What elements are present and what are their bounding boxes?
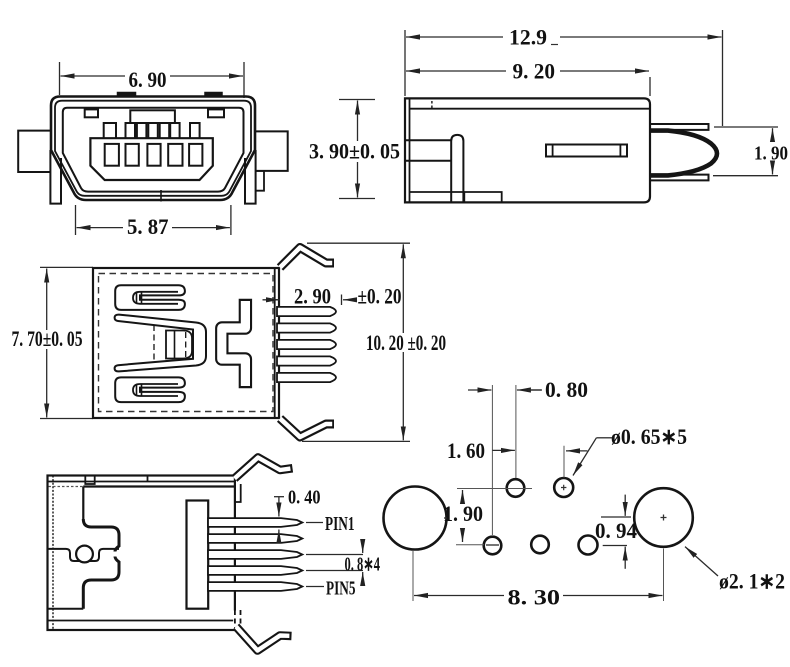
body rect xyxy=(93,268,279,418)
dia 0.65 arrow xyxy=(566,450,587,452)
small hole lower-right xyxy=(579,536,598,555)
vertical bar with round top xyxy=(451,135,463,203)
spring hook xyxy=(650,131,717,176)
side block right xyxy=(255,131,288,171)
interior step contour lower xyxy=(83,557,119,609)
svg-text:PIN1: PIN1 xyxy=(325,513,355,535)
top tab xyxy=(650,124,709,130)
pin 1 xyxy=(208,518,302,527)
small hole upper-left xyxy=(507,479,525,497)
pin 4 xyxy=(208,566,302,575)
pin block bar xyxy=(187,501,209,609)
dim +-0.20 tick xyxy=(341,295,343,306)
dim 3.90 line xyxy=(357,101,359,142)
pin 5 xyxy=(277,373,336,382)
svg-text:3. 90±0. 05: 3. 90±0. 05 xyxy=(309,139,400,164)
bottom center tick xyxy=(160,190,162,202)
pin 2 xyxy=(208,534,302,543)
dim 9.20 line xyxy=(406,70,506,72)
svg-text:0. 80: 0. 80 xyxy=(545,377,588,402)
svg-text:12.9: 12.9 xyxy=(509,25,547,50)
left edge inner line xyxy=(52,476,54,631)
svg-text:10. 20 ±0. 20: 10. 20 ±0. 20 xyxy=(366,330,446,355)
top edge second line xyxy=(48,481,235,483)
svg-text:7. 70±0. 05: 7. 70±0. 05 xyxy=(12,326,83,351)
hidden top-left dashes xyxy=(49,486,84,488)
TOPVIEW xyxy=(12,243,447,441)
contact clothespin middle xyxy=(115,315,206,372)
interior bottom horizontal xyxy=(48,608,84,610)
contact Z-ribbon right xyxy=(222,299,246,388)
top right step xyxy=(235,484,241,502)
ext line small left col xyxy=(491,385,493,535)
pin 3 xyxy=(208,550,302,559)
contact fork top xyxy=(115,285,185,310)
dim 12.9 ext right xyxy=(722,30,724,126)
opening D contour xyxy=(63,108,244,192)
latch hole right xyxy=(208,109,224,117)
BOTTOMVIEW xyxy=(48,458,381,651)
bottom hook leg xyxy=(280,419,334,438)
tongue slot 5 xyxy=(189,144,202,166)
left horizontals xyxy=(405,139,452,141)
dim +-0.20 arrow xyxy=(343,299,356,301)
dim 0.40 leader xyxy=(274,496,284,498)
dia 2.1 leader xyxy=(685,547,718,576)
dim 2.90 arrow xyxy=(263,299,281,301)
dashed hidden rect xyxy=(99,274,274,412)
tongue trapezoid xyxy=(90,138,212,180)
bottom hook leg xyxy=(236,627,292,651)
dim 6.90 extension line left xyxy=(59,62,61,95)
dim 12.9 ext left xyxy=(404,30,406,96)
dim 10.20 ext top xyxy=(307,242,410,244)
svg-text:0. 94: 0. 94 xyxy=(595,518,637,543)
body inner left line xyxy=(409,98,411,202)
dim 6.90 line xyxy=(61,75,126,77)
tongue slot 1 xyxy=(105,144,119,166)
dim 0.8*4 arrows xyxy=(362,539,364,553)
small hole lower-mid xyxy=(531,536,549,554)
svg-text:±0. 20: ±0. 20 xyxy=(358,284,402,309)
svg-text:6. 90: 6. 90 xyxy=(129,67,167,92)
foot tab left xyxy=(50,150,61,204)
hidden edge dashes bottom-right xyxy=(233,611,237,630)
pin 4 xyxy=(277,356,336,365)
svg-text:1. 60: 1. 60 xyxy=(447,438,485,463)
top small notch xyxy=(85,476,94,485)
foot tab right xyxy=(245,150,256,204)
teeth row xyxy=(104,123,116,138)
big hole right xyxy=(634,488,693,547)
pin 2 xyxy=(277,323,336,332)
shell outer contour xyxy=(51,97,255,201)
ext line small right col xyxy=(515,385,517,478)
dim 10.20 line xyxy=(402,244,404,333)
svg-text:0. 40: 0. 40 xyxy=(288,487,321,509)
tongue slot 4 xyxy=(168,144,182,166)
bottom second line xyxy=(410,191,465,193)
bottom tab xyxy=(650,175,709,181)
dim 7.70 line xyxy=(46,269,48,331)
top latch bump right xyxy=(205,93,222,97)
lower row line xyxy=(456,544,484,546)
tongue slot 2 xyxy=(126,144,139,166)
svg-text:2. 90: 2. 90 xyxy=(294,284,331,309)
middle slot xyxy=(546,145,627,157)
tongue slot 3 xyxy=(147,144,160,166)
dim 5.87 line xyxy=(77,227,124,229)
svg-text:1. 90: 1. 90 xyxy=(443,501,483,526)
SIDEVIEW xyxy=(405,25,788,203)
PCBVIEW xyxy=(384,377,786,610)
contact fork bottom xyxy=(115,377,185,402)
svg-text:ø2. 1∗2: ø2. 1∗2 xyxy=(719,569,785,594)
svg-text:8. 30: 8. 30 xyxy=(508,585,561,610)
pin 5 xyxy=(208,582,302,591)
dim 3.90 ext ticks xyxy=(339,99,375,101)
dim 1.60 arrow xyxy=(492,449,515,451)
dim 0.94 arrows xyxy=(624,495,626,516)
bottom step block xyxy=(464,192,501,202)
pin3 ext line xyxy=(306,554,363,556)
dim 5.87 ext right xyxy=(230,205,232,235)
dim 8.30 line xyxy=(414,595,504,597)
dim 7.70 ext ticks xyxy=(40,266,93,268)
interior circle xyxy=(76,546,93,563)
dim 6.90 extension line right xyxy=(243,62,245,98)
bottom edge second line xyxy=(48,620,235,622)
small hole lower-left xyxy=(484,537,502,555)
FRONTVIEW xyxy=(18,62,400,239)
interior left vertical top xyxy=(82,487,84,522)
svg-text:1. 90: 1. 90 xyxy=(754,143,788,165)
interior top horizontal xyxy=(83,485,235,487)
pin 3 xyxy=(277,340,336,349)
body outline xyxy=(48,476,235,631)
dim 12.9 line xyxy=(406,36,503,38)
PIN5 leader xyxy=(306,586,324,588)
top hook leg xyxy=(235,458,293,479)
dim 5.87 ext left xyxy=(75,205,77,235)
dim 1.90 arrows xyxy=(772,128,774,141)
upper row center line xyxy=(457,488,532,490)
dim 1.90 ext lines xyxy=(714,126,778,128)
body outline xyxy=(405,98,650,202)
dia 0.65 leader xyxy=(596,437,612,439)
svg-text:PIN5: PIN5 xyxy=(326,578,356,600)
side block left xyxy=(18,131,51,172)
shell wall inner contour xyxy=(55,101,251,196)
center top housing rect xyxy=(130,110,175,123)
pin4 ext line xyxy=(306,570,363,572)
svg-text:5. 87: 5. 87 xyxy=(127,214,169,239)
top edge tick xyxy=(147,476,149,482)
PIN1 leader xyxy=(306,522,323,524)
dim 9.20 ext right xyxy=(649,77,651,96)
side block right lower tab xyxy=(255,171,264,191)
dim 8.30 ext left xyxy=(412,551,414,601)
dim 1.90 arrows xyxy=(462,490,464,501)
small hole upper-right xyxy=(554,478,573,497)
pin 1 xyxy=(277,307,336,316)
dim 10.20 ext bottom xyxy=(302,440,410,442)
dim 8.30 ext right xyxy=(663,549,665,602)
dim 0.80 arrows xyxy=(468,389,491,391)
svg-text:ø0. 65∗5: ø0. 65∗5 xyxy=(611,424,687,449)
top hook leg xyxy=(280,248,334,268)
big hole left xyxy=(384,487,447,550)
interior step contour upper xyxy=(83,519,119,552)
interior mid line with dip xyxy=(48,549,120,561)
top-left tick mark xyxy=(431,101,433,109)
svg-text:9. 20: 9. 20 xyxy=(513,59,556,84)
body inner top line xyxy=(410,108,651,110)
body right edge inner xyxy=(274,268,276,418)
dia 0.65 ext line xyxy=(563,446,565,478)
svg-text:0. 8∗4: 0. 8∗4 xyxy=(345,554,381,576)
dim 0.94 ticks xyxy=(601,516,631,518)
top latch bump left xyxy=(118,93,136,97)
latch hole left xyxy=(85,109,98,117)
